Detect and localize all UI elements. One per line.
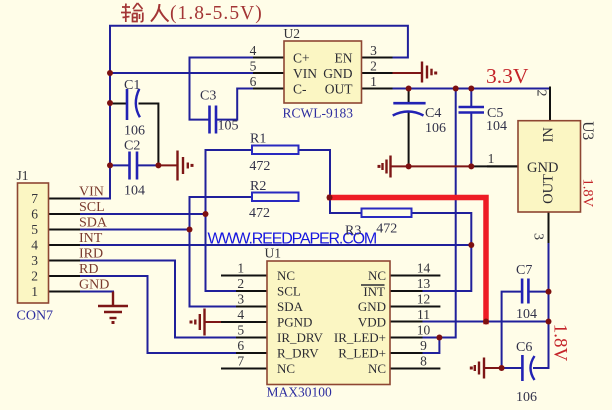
svg-text:GND: GND: [323, 66, 352, 81]
svg-text:NC: NC: [368, 361, 386, 376]
svg-text:7: 7: [237, 354, 244, 369]
U1 pin names right: [334, 268, 386, 376]
pin stub U2 pin4: [254, 57, 284, 59]
wire C5 stems: [470, 89, 472, 167]
capacitor labels C1 C2: [124, 78, 145, 198]
svg-text:1: 1: [370, 74, 377, 89]
svg-text:U3: U3: [579, 121, 596, 140]
U1 pin numbers left: [237, 261, 244, 369]
pin stub U3 pin2: [549, 88, 551, 121]
svg-text:5: 5: [31, 222, 38, 237]
svg-text:IR_LED+: IR_LED+: [334, 330, 386, 345]
capacitor labels C6 C7: [516, 263, 537, 405]
svg-text:8: 8: [420, 354, 427, 369]
svg-text:3: 3: [237, 292, 244, 307]
svg-text:(1.8-5.5V): (1.8-5.5V): [170, 3, 263, 24]
wire R1 right riser to R3 left: [299, 150, 362, 213]
pin stub U1 pin11 VDD: [390, 321, 422, 323]
junction SDA / R2: [187, 227, 193, 233]
resistor labels: [249, 132, 397, 239]
pin stub J1 pin5: [49, 229, 79, 231]
wire IRD J1 to U1 pin5: [79, 261, 237, 338]
svg-text:EN: EN: [335, 51, 353, 66]
pin stub U1 pin6: [237, 352, 267, 354]
svg-text:C-: C-: [293, 82, 307, 97]
pin stub U1 pin5: [237, 337, 267, 339]
svg-text:1: 1: [31, 284, 38, 299]
svg-text:104: 104: [486, 119, 507, 134]
wire R1 left riser to U1 pin2 SCL: [206, 150, 253, 291]
resistor R2: [252, 193, 299, 202]
wire U2 pin2 to ground: [392, 72, 422, 74]
svg-text:C1: C1: [124, 78, 140, 93]
wire C2 to ground: [158, 164, 177, 166]
pin stub J1 pin3: [49, 260, 79, 262]
INT overline: [361, 284, 385, 286]
svg-text:NC: NC: [277, 268, 295, 283]
svg-text:472: 472: [249, 206, 270, 221]
svg-text:4: 4: [31, 238, 38, 253]
svg-text:7: 7: [31, 191, 38, 206]
svg-text:2: 2: [533, 90, 548, 97]
junction INT / R3 / U1 pin13: [468, 242, 474, 248]
IC box U3: [518, 121, 581, 212]
svg-text:2: 2: [31, 269, 38, 284]
wire C6 ground link: [484, 367, 501, 369]
junction C6 left / ground: [499, 365, 505, 371]
svg-text:U1: U1: [265, 246, 282, 261]
svg-text:106: 106: [516, 390, 537, 405]
wire R3 right riser to U1 pin13: [412, 213, 471, 291]
capacitor C5: [459, 107, 485, 113]
svg-text:1.8V: 1.8V: [580, 178, 596, 207]
wire U3 pin3 riser to C6: [534, 242, 549, 368]
svg-text:INT: INT: [363, 284, 385, 299]
svg-text:106: 106: [124, 124, 145, 139]
wire C7 left to ground riser: [502, 292, 522, 368]
junction 3.3V / LED riser: [453, 86, 459, 92]
svg-text:6: 6: [31, 207, 38, 222]
wire C1 left: [110, 103, 126, 105]
svg-text:IN: IN: [541, 127, 557, 143]
U1 pin numbers right: [417, 261, 431, 369]
svg-text:IR_DRV: IR_DRV: [277, 330, 324, 345]
junction SCL / R1: [203, 211, 209, 217]
svg-text:R_DRV: R_DRV: [277, 346, 319, 361]
svg-text:106: 106: [425, 121, 446, 136]
svg-text:13: 13: [417, 276, 431, 291]
wire SDA J1: [79, 229, 190, 231]
capacitor labels C4 C5: [425, 106, 507, 136]
svg-text:4: 4: [237, 307, 244, 322]
capacitor C6: [522, 355, 534, 381]
title 入 glyph: [151, 4, 169, 22]
svg-text:GND: GND: [527, 160, 558, 176]
svg-text:472: 472: [376, 222, 397, 237]
svg-text:9: 9: [420, 338, 427, 353]
capacitor C2: [130, 152, 138, 180]
ground at PGND: [190, 309, 205, 336]
svg-text:C6: C6: [516, 340, 532, 355]
capacitor C4: [393, 103, 426, 115]
pin stub U1 pin14 NC: [390, 275, 439, 277]
pin stub U1 pin2: [237, 290, 267, 292]
pin stub J1 pin4: [49, 244, 79, 246]
svg-text:3: 3: [31, 253, 38, 268]
svg-text:VDD: VDD: [358, 315, 386, 330]
ground at C4: [378, 156, 391, 178]
wire C2 right: [139, 164, 159, 166]
svg-text:VIN: VIN: [79, 185, 104, 200]
svg-text:RCWL-9183: RCWL-9183: [283, 106, 354, 121]
wire C1 right down: [140, 104, 159, 166]
svg-text:3: 3: [370, 43, 377, 58]
svg-text:INT: INT: [79, 231, 103, 246]
svg-text:C7: C7: [516, 263, 532, 278]
pin stub J1 pin1: [49, 291, 79, 293]
J1 pin numbers: [31, 191, 38, 299]
pin stub J1 pin6: [49, 213, 79, 215]
svg-text:11: 11: [417, 307, 430, 322]
svg-text:1.8V: 1.8V: [550, 324, 571, 362]
ground at U2 pin2: [422, 62, 437, 83]
pin stub U2 pin3: [362, 57, 392, 59]
junction VDD line / U3 OUT riser: [546, 319, 552, 325]
pin stub J1 pin7: [49, 198, 79, 200]
svg-text:4: 4: [250, 43, 257, 58]
svg-text:NC: NC: [368, 268, 386, 283]
svg-text:C+: C+: [293, 51, 310, 66]
wire 3.3V riser to LED pins: [422, 89, 456, 338]
svg-text:3: 3: [531, 233, 546, 240]
svg-text:OUT: OUT: [541, 174, 557, 204]
wire R2 left riser to U1 pin3 SDA: [190, 197, 253, 307]
capacitor labels C3: [200, 89, 239, 134]
resistor R1: [252, 146, 299, 155]
svg-text:105: 105: [218, 119, 239, 134]
junction red wire / VDD line: [483, 319, 489, 325]
wire U2 pin6 to C3 right: [218, 89, 254, 120]
capacitor C3: [210, 106, 217, 134]
svg-text:2: 2: [237, 276, 244, 291]
junction R2 right / 1.8V red wire: [327, 195, 333, 201]
svg-text:PGND: PGND: [277, 315, 312, 330]
U2 pin names: [293, 51, 353, 97]
wire SCL J1: [79, 213, 206, 215]
pin stub U1 pin7 NC: [222, 368, 267, 370]
svg-text:1: 1: [488, 151, 495, 166]
pin stub U1 pin4 PGND: [222, 321, 267, 323]
svg-text:VIN: VIN: [293, 66, 317, 81]
wire C6 left: [502, 367, 523, 369]
wire U1 pin9 riser: [422, 338, 440, 354]
wire U2 pin4 to C3 left: [190, 58, 255, 120]
svg-text:C3: C3: [200, 89, 216, 104]
ground at J1 GND: [98, 292, 128, 325]
svg-text:12: 12: [417, 292, 431, 307]
capacitor C1: [127, 89, 140, 120]
svg-text:104: 104: [516, 307, 537, 322]
svg-text:1: 1: [237, 261, 244, 276]
wire top EN loop: [110, 26, 408, 199]
svg-text:NC: NC: [277, 361, 295, 376]
junction ground line / C4 bottom: [406, 163, 412, 169]
junction C1 left: [107, 100, 113, 106]
svg-text:U2: U2: [284, 26, 301, 41]
capacitor C7: [522, 279, 528, 304]
pin stub U2 pin1: [362, 88, 392, 90]
wire 3.3V rail to U3 pin2: [392, 88, 551, 90]
pin stub U1 pin3: [237, 306, 267, 308]
wire C2 left: [110, 164, 128, 166]
svg-text:RD: RD: [79, 262, 98, 277]
svg-text:5: 5: [237, 323, 244, 338]
svg-text:6: 6: [250, 74, 257, 89]
svg-text:14: 14: [417, 261, 431, 276]
pin stub U2 pin2: [362, 72, 392, 74]
wire PGND link: [205, 321, 222, 323]
svg-text:OUT: OUT: [325, 82, 353, 97]
svg-text:R2: R2: [250, 179, 266, 194]
wire RD J1 to U1 pin6: [79, 276, 237, 353]
svg-text:2: 2: [370, 59, 377, 74]
U2 pin numbers: [250, 43, 378, 89]
pin stub U1 pin1 NC: [222, 275, 267, 277]
svg-text:SDA: SDA: [277, 299, 304, 314]
junction 3.3V / C4 top: [406, 86, 412, 92]
svg-text:SDA: SDA: [79, 216, 108, 231]
wire GND J1: [79, 291, 113, 293]
wire VDD 1.8V line: [422, 321, 549, 323]
ground at C6: [470, 358, 484, 379]
svg-text:3.3V: 3.3V: [486, 64, 529, 88]
junction VIN / U2 pin5: [107, 70, 113, 76]
junction C1-C2 right / ground: [155, 162, 161, 168]
junction 3.3V / C5 top: [468, 86, 474, 92]
svg-text:J1: J1: [17, 168, 29, 183]
pin stub U1 pin10: [390, 337, 422, 339]
svg-text:472: 472: [249, 159, 270, 174]
wire ground line C4 C5: [391, 165, 471, 167]
wire C4 stems: [408, 89, 410, 167]
pin stub U1 pin13: [390, 290, 422, 292]
IC box U2: [284, 41, 362, 103]
svg-text:MAX30100: MAX30100: [267, 385, 333, 400]
svg-text:5: 5: [250, 59, 257, 74]
svg-text:SCL: SCL: [79, 200, 105, 215]
pin stub U2 pin5: [254, 72, 284, 74]
svg-text:R3: R3: [345, 224, 361, 239]
wire VIN J1 to riser: [79, 198, 110, 200]
junction C7 right / U3 OUT riser: [546, 289, 552, 295]
wire U3 pin1: [471, 165, 518, 167]
wire INT J1 to pin13 riser: [79, 244, 471, 246]
svg-text:R1: R1: [250, 132, 266, 147]
wire C7 right: [529, 291, 549, 293]
junction U1 pin9-pin10: [436, 335, 442, 341]
svg-text:IRD: IRD: [79, 247, 103, 262]
pin stub U1 pin8 NC: [390, 368, 439, 370]
svg-text:GND: GND: [79, 278, 109, 293]
pin stub U3 pin3: [548, 212, 550, 242]
pin stub U3 pin1 GND: [488, 165, 518, 167]
svg-text:10: 10: [417, 323, 431, 338]
ground at C2: [178, 151, 194, 181]
pin stub U1 pin12 GND: [390, 306, 439, 308]
J1 signal labels: [79, 185, 109, 293]
pin stub U2 pin6: [254, 88, 284, 90]
svg-text:C4: C4: [425, 106, 441, 121]
wire U2 pin5 VIN: [110, 72, 254, 74]
junction C2 left: [107, 162, 113, 168]
junction ground line / C5 bottom: [468, 163, 474, 169]
svg-text:GND: GND: [358, 299, 386, 314]
pin stub U1 pin9: [390, 352, 422, 354]
resistor R3: [362, 209, 412, 218]
pin stub J1 pin2: [49, 275, 79, 277]
IC box U1: [267, 261, 390, 385]
connector box J1: [18, 183, 49, 303]
svg-text:R_LED+: R_LED+: [338, 346, 386, 361]
svg-text:6: 6: [237, 338, 244, 353]
svg-text:SCL: SCL: [277, 284, 301, 299]
title 输入 glyphs: [121, 3, 143, 22]
red 1.8V thick wire: [330, 198, 486, 322]
svg-text:CON7: CON7: [17, 309, 54, 324]
svg-text:C2: C2: [124, 138, 140, 153]
svg-text:104: 104: [124, 183, 145, 198]
U1 pin names left: [277, 268, 324, 376]
